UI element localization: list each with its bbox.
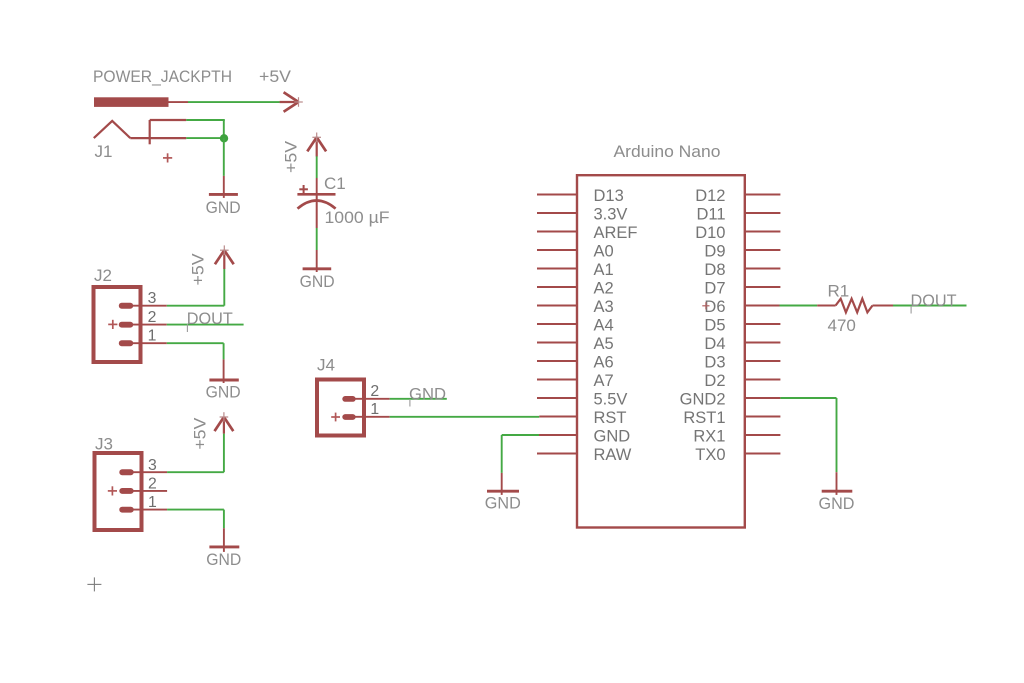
connector J2 pin 2 contact	[119, 322, 133, 328]
connector J2 body	[94, 287, 141, 362]
wire J3 pin1 to GND	[167, 509, 224, 511]
J1 plus polarity mark	[163, 153, 172, 162]
svg-text:J1: J1	[95, 142, 113, 161]
svg-text:470: 470	[828, 316, 856, 335]
pin J2-1	[126, 342, 167, 344]
svg-text:GND: GND	[594, 428, 631, 446]
svg-text:D10: D10	[695, 224, 725, 242]
connector J3 pin 1 contact	[119, 507, 133, 513]
connector J2 pin 1 contact	[119, 340, 133, 346]
connector J4 pin 1 contact	[342, 414, 355, 420]
svg-text:D5: D5	[704, 317, 725, 335]
capacitor C1 bottom plate arc	[298, 201, 336, 209]
pin J3-3	[127, 471, 168, 473]
svg-text:+5V: +5V	[259, 67, 292, 86]
svg-text:1: 1	[148, 328, 157, 345]
J3 plus polarity mark	[108, 486, 117, 495]
connector J4 body	[317, 380, 364, 436]
ground GND under J3	[206, 528, 241, 569]
svg-text:D6: D6	[704, 298, 725, 316]
svg-text:GND: GND	[819, 494, 855, 513]
svg-text:D4: D4	[704, 335, 725, 353]
pins left side of Arduino	[537, 195, 577, 454]
svg-text:A4: A4	[594, 317, 614, 335]
svg-text:D9: D9	[704, 243, 725, 261]
svg-text:GND: GND	[206, 550, 241, 569]
pin J4-1	[349, 416, 390, 418]
svg-text:POWER_JACKPTH: POWER_JACKPTH	[93, 67, 232, 86]
svg-text:D8: D8	[704, 261, 725, 279]
svg-text:DOUT: DOUT	[187, 309, 233, 328]
connector J3 body	[95, 453, 142, 530]
svg-text:J4: J4	[317, 356, 335, 375]
D6 anchor cross mark	[702, 302, 709, 309]
svg-text:GND2: GND2	[680, 391, 726, 409]
resistor R1	[817, 299, 893, 313]
wire J3 pin3 to +5V	[167, 471, 224, 473]
svg-text:RST1: RST1	[683, 409, 725, 427]
ground GND right of Arduino	[819, 472, 855, 513]
J2 plus polarity mark	[108, 320, 117, 329]
connector J4 pin 2 contact	[342, 396, 355, 402]
svg-text:2: 2	[370, 383, 379, 400]
connector J2 pin 3 contact	[119, 303, 133, 309]
pin J2-3	[126, 305, 167, 307]
ground GND under J1	[206, 176, 241, 217]
wire GND2 to ground right	[780, 397, 836, 399]
wire C1 to GND	[316, 228, 318, 250]
svg-text:TX0: TX0	[695, 446, 725, 464]
svg-text:Arduino Nano: Arduino Nano	[614, 142, 721, 161]
svg-text:1000 µF: 1000 µF	[325, 208, 390, 227]
svg-text:GND: GND	[409, 384, 446, 403]
wire junction drop	[223, 120, 225, 139]
svg-text:A5: A5	[594, 335, 614, 353]
origin cross mark bottom left	[87, 577, 101, 591]
connector J1 barrel bar	[94, 97, 169, 107]
svg-text:J3: J3	[95, 435, 113, 454]
wire GND net stub at J4 pin2	[390, 398, 447, 400]
pin labels left side	[594, 187, 638, 464]
ground GND left of Arduino	[485, 473, 521, 513]
svg-text:D7: D7	[704, 280, 725, 298]
svg-text:A2: A2	[594, 280, 614, 298]
svg-text:+5V: +5V	[189, 253, 208, 286]
svg-text:3: 3	[148, 290, 157, 307]
pins right side of Arduino	[745, 195, 781, 454]
wire junction to GND	[223, 138, 225, 176]
wire Arduino GND pin to ground	[502, 434, 539, 436]
junction dot	[220, 134, 228, 142]
svg-text:3.3V: 3.3V	[594, 206, 628, 224]
svg-text:A1: A1	[594, 261, 614, 279]
pin J3-1	[127, 509, 168, 511]
pin C1 top lead	[316, 178, 318, 194]
svg-text:RST: RST	[594, 409, 627, 427]
svg-text:D2: D2	[704, 372, 725, 390]
supply +5V arrow right	[280, 92, 303, 111]
svg-text:GND: GND	[206, 198, 241, 217]
wire J2 pin1 to GND	[167, 342, 224, 344]
IC U1 Arduino Nano body	[577, 175, 745, 527]
wire J4 pin1 to RST	[390, 416, 540, 418]
svg-text:D11: D11	[696, 206, 725, 224]
svg-text:1: 1	[148, 494, 157, 511]
svg-text:A7: A7	[594, 372, 614, 390]
svg-text:C1: C1	[324, 174, 346, 193]
svg-text:D13: D13	[594, 187, 624, 205]
svg-text:GND: GND	[300, 272, 335, 291]
svg-text:RAW: RAW	[594, 446, 632, 464]
wire +5V net top	[188, 101, 280, 103]
connector J3 pin 3 contact	[119, 469, 133, 475]
connector J1 jack symbol	[94, 120, 187, 144]
svg-text:GND: GND	[485, 494, 521, 513]
svg-text:RX1: RX1	[693, 428, 725, 446]
connector J3 pin 2 contact	[119, 488, 133, 494]
capacitor C1 top plate	[297, 193, 335, 196]
supply +5V arrow above J2	[215, 245, 234, 269]
wire DOUT net right	[893, 305, 967, 307]
capacitor C1 lead between plates	[316, 194, 318, 228]
supply +5V arrow above C1	[307, 133, 326, 157]
svg-text:J2: J2	[94, 266, 112, 285]
svg-text:D3: D3	[704, 354, 725, 372]
svg-text:3: 3	[148, 457, 157, 474]
svg-text:GND: GND	[206, 382, 241, 401]
pin J2-2	[126, 324, 167, 326]
wire jack bottom to junction	[186, 137, 224, 139]
svg-text:A0: A0	[594, 243, 614, 261]
svg-text:A6: A6	[594, 354, 614, 372]
wire jack top to junction	[186, 119, 225, 121]
C1 plus mark	[299, 185, 308, 194]
svg-text:A3: A3	[594, 298, 614, 316]
svg-text:D12: D12	[695, 187, 725, 205]
svg-text:DOUT: DOUT	[911, 291, 957, 310]
pin J1 power pin	[169, 101, 189, 103]
svg-text:2: 2	[148, 309, 157, 326]
wire J2 pin3 to +5V	[167, 305, 225, 307]
wire D6 to R1	[780, 305, 818, 307]
pin J4-2	[349, 398, 390, 400]
J4 plus polarity mark	[331, 413, 340, 422]
pin J3-2 unconnected	[127, 490, 168, 492]
wire DOUT net at J2	[167, 324, 244, 326]
svg-text:R1: R1	[828, 282, 850, 301]
svg-text:1: 1	[370, 401, 379, 418]
ground GND under J2	[206, 359, 241, 401]
svg-text:2: 2	[148, 476, 157, 493]
svg-text:5.5V: 5.5V	[594, 391, 628, 409]
svg-text:+5V: +5V	[190, 417, 209, 450]
pin labels right side	[680, 187, 726, 464]
svg-text:AREF: AREF	[594, 224, 638, 242]
supply +5V arrow above J3	[215, 412, 234, 433]
ground GND under C1	[300, 250, 335, 291]
wire +5V to C1	[316, 156, 318, 178]
svg-text:+5V: +5V	[282, 140, 301, 173]
